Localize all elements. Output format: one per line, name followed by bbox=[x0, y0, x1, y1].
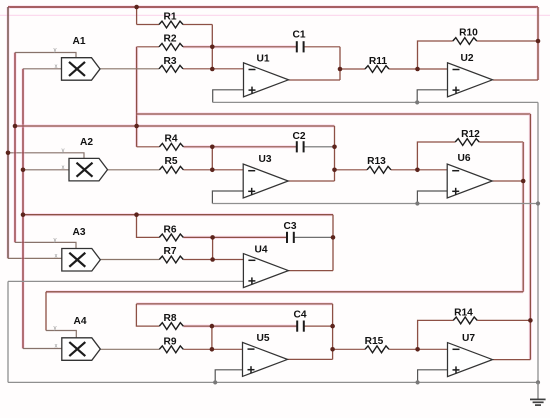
junction R7 row at x212 bbox=[210, 257, 215, 262]
junction R12 drop at R13 row bbox=[415, 168, 420, 173]
junction R10 right at x538 bbox=[536, 39, 541, 44]
resistor R4 bbox=[159, 143, 183, 150]
resistor R6 bbox=[159, 234, 183, 241]
resistor R14 bbox=[453, 317, 477, 324]
svg-text:C1: C1 bbox=[292, 30, 305, 41]
svg-text:R11: R11 bbox=[369, 56, 387, 67]
svg-text:U6: U6 bbox=[457, 153, 470, 164]
svg-text:R5: R5 bbox=[164, 156, 177, 167]
junction R4 row at x212 bbox=[210, 145, 215, 150]
junction C2 right at x334 bbox=[332, 145, 337, 150]
junction U1out C1 R11 bbox=[338, 67, 343, 72]
wire A1 y-input row bbox=[15, 53, 76, 59]
capacitor C4 bbox=[297, 321, 304, 332]
op-amp U2 bbox=[448, 63, 493, 97]
svg-text:R2: R2 bbox=[163, 34, 176, 45]
junction R6 row at x212 bbox=[210, 235, 215, 240]
junction R3 row at x212 bbox=[210, 67, 215, 72]
wire A2 x-input row bbox=[23, 169, 69, 171]
multiplier A4 bbox=[62, 338, 101, 361]
wire y126 line net U3out bbox=[15, 124, 335, 127]
wire C3 right lead bbox=[294, 236, 333, 238]
svg-text:x: x bbox=[55, 64, 58, 70]
wire R4-C2 row bbox=[183, 145, 296, 148]
wire x538 vertical U2out to top bbox=[536, 7, 539, 80]
wire U6 output bbox=[492, 180, 523, 182]
wire x136 stub to R6 bbox=[137, 215, 160, 238]
junction top border to R1 bbox=[134, 5, 139, 10]
wire left border net to A3.x bbox=[6, 7, 9, 258]
junction ground rail y203 at x538 bbox=[536, 201, 540, 205]
capacitor C3 bbox=[287, 232, 294, 243]
svg-text:R6: R6 bbox=[163, 225, 176, 236]
wire y114 line net U7out bbox=[137, 112, 531, 115]
wire U1 plus to ground rail bbox=[213, 90, 244, 103]
svg-text:y: y bbox=[62, 148, 65, 154]
wire R13 left lead bbox=[335, 169, 368, 171]
wire grey right border x538 bbox=[537, 102, 539, 399]
wire R14 right lead bbox=[477, 319, 530, 321]
junction y214 at x23 rail bbox=[21, 212, 26, 217]
op-amp U3 bbox=[243, 164, 288, 198]
wire R14 left corner and drop bbox=[418, 320, 454, 349]
wire U3 output bbox=[288, 180, 335, 182]
wire U3 plus to ground rail bbox=[212, 191, 243, 204]
wire R11 right lead to U2 minus bbox=[389, 68, 448, 70]
wire x23 rail net U4out bbox=[21, 69, 24, 349]
junction U5 plus on ground rail bbox=[213, 380, 217, 384]
wire x333 row3 vertical bbox=[332, 215, 334, 271]
resistor R13 bbox=[367, 166, 391, 173]
wire x332 row4 vertical bbox=[332, 304, 334, 360]
wire x46 drop to A4 y-input bbox=[45, 292, 47, 331]
op-amp U5 bbox=[243, 342, 288, 376]
svg-text:U4: U4 bbox=[254, 245, 267, 256]
wire R5 right lead to U3 minus bbox=[183, 169, 243, 171]
svg-text:x: x bbox=[62, 165, 65, 171]
wire y292 line U6out to A4.y bbox=[46, 290, 523, 293]
wire U7 plus drop bbox=[418, 370, 448, 383]
wire R10 left corner and drop bbox=[418, 41, 453, 69]
wire R10 right lead bbox=[477, 40, 538, 42]
junction R9 row at x212 bbox=[210, 347, 215, 352]
wire R9 right lead to U5 minus bbox=[183, 348, 242, 350]
svg-text:U5: U5 bbox=[256, 333, 269, 344]
wire R3 right lead to U1 minus bbox=[183, 68, 244, 70]
svg-text:R15: R15 bbox=[365, 336, 384, 347]
junction U6 output at x523 bbox=[521, 179, 526, 184]
svg-text:R13: R13 bbox=[367, 156, 386, 167]
svg-text:C3: C3 bbox=[283, 221, 296, 232]
pink artifact line top bbox=[0, 14, 550, 16]
junction y126 at x15 rail bbox=[13, 124, 18, 129]
wire R2 left lead bbox=[137, 46, 159, 48]
junction R14 right at x530 bbox=[528, 318, 533, 323]
junction A2 x-input on x23 rail bbox=[21, 168, 26, 173]
svg-text:U7: U7 bbox=[462, 333, 475, 344]
op-amp U1 bbox=[244, 63, 289, 97]
junction ground rail y382 at x538 bbox=[536, 380, 540, 384]
svg-text:R3: R3 bbox=[163, 56, 176, 67]
svg-text:C4: C4 bbox=[293, 310, 306, 321]
wire A2 out to R5 bbox=[108, 169, 160, 171]
wire A3 y-input row bbox=[15, 242, 76, 248]
svg-text:x: x bbox=[55, 254, 58, 260]
junction R15 left at x332 bbox=[330, 347, 335, 352]
wire U4 plus to ground rail y281 bbox=[8, 280, 243, 282]
wire top border net U2out bbox=[8, 5, 538, 8]
resistor R12 bbox=[455, 139, 479, 146]
wire U5 output bbox=[288, 358, 333, 360]
capacitor C1 bbox=[297, 41, 304, 52]
svg-text:R10: R10 bbox=[459, 28, 478, 39]
wire R1 top drop bbox=[136, 7, 138, 25]
op-amp U4 bbox=[243, 254, 288, 288]
wire U1 output bbox=[289, 79, 341, 81]
wire x136 vertical R2-R4 bbox=[135, 47, 138, 147]
svg-text:U3: U3 bbox=[258, 154, 271, 165]
wire C1 right lead bbox=[304, 46, 340, 48]
svg-text:R9: R9 bbox=[163, 337, 176, 348]
svg-text:y: y bbox=[54, 326, 57, 332]
wire A4 x-input row bbox=[23, 348, 62, 350]
wire R6-C3 row bbox=[183, 236, 286, 239]
multiplier A2 bbox=[69, 158, 108, 181]
wire A4 out to R9 bbox=[100, 348, 159, 350]
svg-text:x: x bbox=[55, 344, 58, 350]
svg-text:R8: R8 bbox=[163, 313, 176, 324]
wire R1 left lead bbox=[137, 24, 159, 26]
resistor R7 bbox=[159, 256, 183, 263]
wire x15 rail net U3out bbox=[13, 53, 16, 243]
wire R15 left lead bbox=[333, 348, 365, 350]
wire x340 vertical C1-U1out bbox=[339, 47, 341, 80]
junction U6 plus on ground rail bbox=[415, 201, 419, 205]
wire x334 row2 vertical bbox=[334, 126, 336, 181]
junction R10 drop at R11 row bbox=[415, 67, 420, 72]
wire A2 y-input row bbox=[8, 153, 84, 159]
wire C2 right lead bbox=[304, 146, 334, 148]
junction y214 at x136 bbox=[134, 212, 139, 217]
svg-text:y: y bbox=[54, 238, 57, 244]
wire R8-C4 row bbox=[183, 325, 296, 328]
junction R5 row at x212 bbox=[210, 168, 215, 173]
wire x530 vertical U7out bbox=[529, 114, 532, 360]
svg-text:A1: A1 bbox=[72, 36, 85, 47]
wire row4 top line bbox=[136, 302, 332, 305]
svg-text:U2: U2 bbox=[460, 53, 473, 64]
wire x212 row3 vertical bbox=[212, 237, 214, 259]
svg-text:R4: R4 bbox=[164, 134, 177, 145]
wire U6 plus drop bbox=[417, 191, 447, 204]
ground bbox=[530, 382, 546, 405]
resistor R9 bbox=[159, 346, 183, 353]
wire R12 left corner and drop bbox=[417, 142, 455, 170]
wire U2 plus drop bbox=[417, 90, 447, 103]
wire R1 right lead bbox=[183, 24, 212, 26]
wire R13 right lead to U6 minus bbox=[391, 169, 447, 171]
svg-text:A2: A2 bbox=[80, 137, 93, 148]
svg-text:C2: C2 bbox=[292, 131, 305, 142]
op-amp U7 bbox=[448, 343, 493, 377]
wire A4 y-input row bbox=[46, 331, 76, 339]
resistor R1 bbox=[159, 21, 183, 28]
junction U7 plus on ground rail bbox=[416, 380, 420, 384]
svg-text:R1: R1 bbox=[163, 12, 176, 23]
wire R15 right lead to U7 minus bbox=[389, 348, 448, 350]
multiplier A1 bbox=[62, 58, 101, 80]
wire y214 line U4out to x23 rail bbox=[23, 213, 333, 216]
wire U5 plus drop bbox=[215, 370, 242, 383]
wire U7 output bbox=[493, 359, 530, 361]
wire ground rail y382 bbox=[8, 381, 538, 383]
svg-text:U1: U1 bbox=[256, 54, 269, 65]
resistor R11 bbox=[365, 66, 389, 73]
wire A3 x-input row bbox=[8, 257, 62, 259]
junction R14 drop at R15 row bbox=[415, 347, 420, 352]
wire U4 output bbox=[288, 270, 333, 272]
capacitor C2 bbox=[297, 141, 304, 152]
wire R2-C1 row bbox=[183, 45, 296, 48]
wire ground rail y102 bbox=[213, 101, 538, 103]
resistor R10 bbox=[453, 38, 477, 45]
wire C4 right lead bbox=[304, 325, 332, 327]
wire U2 output bbox=[493, 79, 538, 81]
wire ground rail y203 bbox=[212, 203, 538, 205]
svg-text:R7: R7 bbox=[163, 246, 176, 257]
junction A2 y-input on left border bbox=[6, 151, 11, 156]
wire x212 row4 vertical bbox=[211, 326, 213, 349]
op-amp U6 bbox=[447, 164, 492, 198]
wire A1 out to R3 bbox=[100, 68, 159, 70]
wire x136 row4 drop to R8 bbox=[136, 304, 159, 326]
wire A3 out to R7 bbox=[100, 259, 160, 261]
wire R12 right lead bbox=[479, 141, 523, 143]
junction U2 plus on ground rail bbox=[415, 100, 419, 104]
wire x523 vertical U6out bbox=[522, 142, 525, 292]
wire x212 row1 vertical bbox=[211, 25, 213, 70]
junction R2 row at x212 bbox=[210, 45, 215, 50]
svg-text:A3: A3 bbox=[72, 227, 85, 238]
multiplier A3 bbox=[62, 249, 101, 272]
svg-text:R14: R14 bbox=[454, 308, 473, 319]
junction y126 at x136 bbox=[134, 124, 139, 129]
junction R13 left at x334 bbox=[332, 168, 337, 173]
svg-text:R12: R12 bbox=[461, 129, 480, 140]
resistor R3 bbox=[159, 65, 183, 72]
junction R8 row at x212 bbox=[210, 324, 215, 329]
wire x212 row2 vertical bbox=[211, 147, 213, 170]
wire R4 left lead bbox=[137, 146, 160, 148]
svg-text:A4: A4 bbox=[73, 316, 86, 327]
resistor R8 bbox=[159, 323, 183, 330]
junction C4 right at x332 bbox=[330, 324, 335, 329]
wire A1 x-input row bbox=[23, 68, 62, 70]
junction C3 right at x333 bbox=[331, 235, 336, 240]
wire grey left border x8 bbox=[7, 281, 9, 382]
resistor R5 bbox=[159, 166, 183, 173]
wire R11 left lead bbox=[340, 68, 365, 70]
wire R7 right lead to U4 minus bbox=[183, 259, 243, 261]
svg-text:y: y bbox=[54, 48, 57, 54]
resistor R2 bbox=[159, 43, 183, 50]
resistor R15 bbox=[365, 346, 389, 353]
